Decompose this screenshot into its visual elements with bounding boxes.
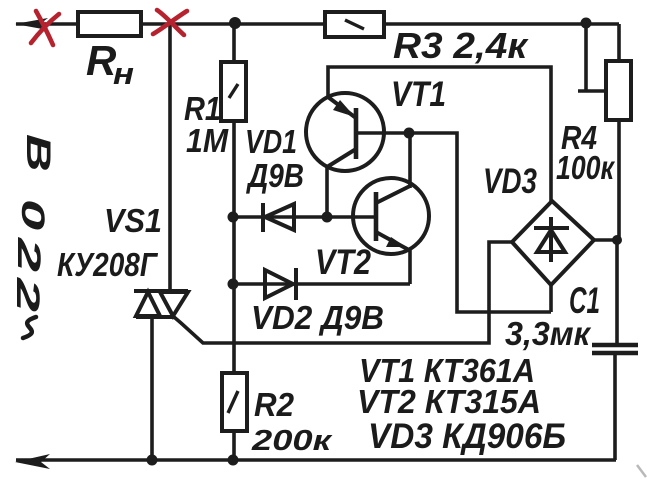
svg-text:н: н — [113, 56, 134, 91]
svg-text:VT2 КТ315А: VT2 КТ315А — [357, 383, 541, 420]
svg-text:VD3: VD3 — [483, 162, 537, 201]
svg-text:R3 2,4к: R3 2,4к — [393, 25, 529, 66]
svg-text:200к: 200к — [251, 425, 333, 457]
svg-text:В: В — [19, 134, 57, 172]
svg-text:3,3мк: 3,3мк — [505, 315, 592, 352]
svg-text:КУ208Г: КУ208Г — [57, 246, 158, 283]
svg-text:VD1: VD1 — [245, 123, 297, 160]
svg-text:VS1: VS1 — [104, 202, 162, 239]
svg-text:2: 2 — [11, 237, 47, 272]
svg-text:100к: 100к — [556, 149, 616, 186]
svg-text:VD3 КД906Б: VD3 КД906Б — [368, 417, 566, 456]
svg-text:R2: R2 — [254, 386, 295, 423]
svg-text:VD2 Д9В: VD2 Д9В — [251, 299, 384, 336]
svg-text:1М: 1М — [186, 122, 229, 159]
svg-text:2: 2 — [10, 277, 46, 312]
svg-text:VT1: VT1 — [391, 75, 446, 114]
svg-text:Д9В: Д9В — [245, 157, 304, 194]
svg-text:VT2: VT2 — [315, 243, 371, 282]
svg-text:0: 0 — [15, 199, 51, 230]
